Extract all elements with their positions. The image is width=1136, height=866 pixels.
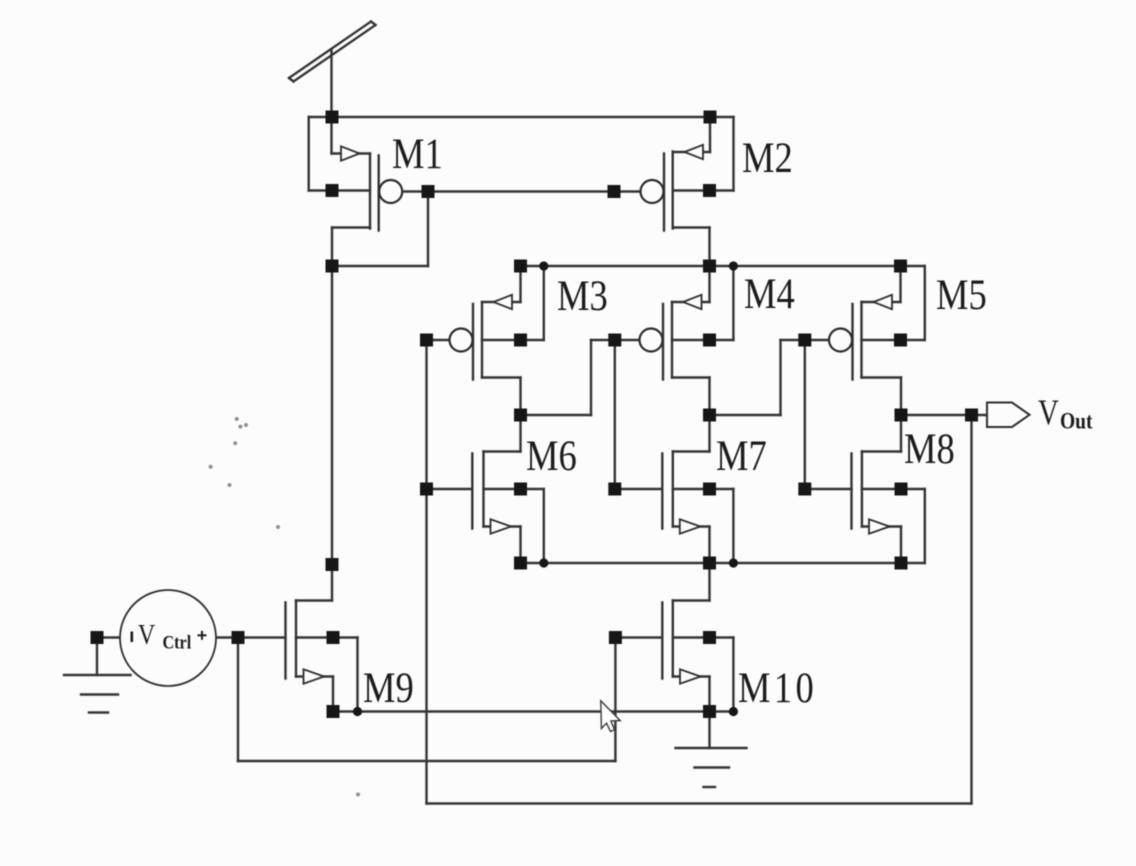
svg-text:M3: M3 [557,271,608,319]
svg-text:M9: M9 [363,663,414,711]
svg-text:M4: M4 [744,269,795,317]
svg-text:Ctrl: Ctrl [163,631,192,653]
svg-text:M5: M5 [936,270,987,318]
svg-text:V: V [1038,393,1059,433]
svg-text:Out: Out [1060,408,1093,434]
svg-text:V: V [138,618,155,651]
svg-text:M6: M6 [526,431,577,479]
svg-text:M8: M8 [904,424,955,472]
svg-text:M10: M10 [738,663,817,711]
svg-text:M7: M7 [716,431,767,479]
svg-text:M1: M1 [392,129,443,177]
svg-text:M2: M2 [742,133,793,181]
